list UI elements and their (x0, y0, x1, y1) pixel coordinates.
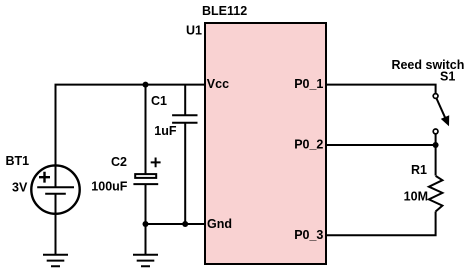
svg-text:P0_1: P0_1 (294, 77, 323, 91)
reed switch S1 (433, 94, 449, 134)
svg-text:P0_2: P0_2 (294, 137, 323, 151)
capacitor C1 (172, 115, 197, 123)
svg-text:BT1: BT1 (6, 154, 30, 168)
wire resistor bottom to pin P0_3 (326, 212, 436, 236)
wire Gnd rail to pin Gnd (146, 223, 206, 225)
wire C1 bottom plate down to Gnd rail (184, 123, 186, 224)
wire pin P0_2 to node (326, 144, 436, 146)
wire battery negative down to ground (55, 214, 57, 255)
junction node Gnd rail / C2 (143, 221, 149, 227)
wire C1 branch from Vcc rail down to C1 top plate (184, 85, 186, 116)
junction node P0_2 / switch / R1 (433, 142, 439, 148)
svg-text:Vcc: Vcc (207, 77, 229, 91)
svg-text:R1: R1 (411, 163, 427, 177)
resistor R1 (429, 176, 443, 212)
battery BT1 (31, 165, 79, 213)
svg-text:3V: 3V (12, 181, 28, 195)
svg-text:C2: C2 (111, 155, 127, 169)
IC U1 body (BLE112) (205, 23, 326, 264)
wire battery positive up and Vcc rail to pin Vcc (56, 85, 206, 166)
junction node Vcc rail / C2 branch (143, 82, 149, 88)
ground symbol under battery (43, 255, 68, 266)
wire C2 bottom plate to Gnd rail (145, 184, 147, 224)
wire pin P0_1 to reed switch top terminal (326, 85, 436, 94)
svg-text:C1: C1 (151, 94, 167, 108)
svg-text:BLE112: BLE112 (202, 4, 247, 18)
svg-text:S1: S1 (440, 69, 455, 83)
svg-text:10M: 10M (404, 190, 428, 204)
svg-text:Gnd: Gnd (207, 217, 232, 231)
junction node Gnd rail / C1 (182, 221, 188, 227)
svg-text:100uF: 100uF (91, 179, 127, 193)
polarity plus sign of C2 (151, 158, 161, 168)
wire C2 branch from Vcc rail down to C2 top plate (145, 85, 147, 174)
svg-text:1uF: 1uF (154, 124, 177, 138)
capacitor C2 (polarized, 100uF) (133, 174, 158, 184)
svg-text:U1: U1 (186, 24, 202, 38)
ground symbol under C2 (133, 224, 158, 266)
wire switch bottom terminal down through node to resistor (435, 134, 437, 175)
svg-text:P0_3: P0_3 (294, 228, 323, 242)
